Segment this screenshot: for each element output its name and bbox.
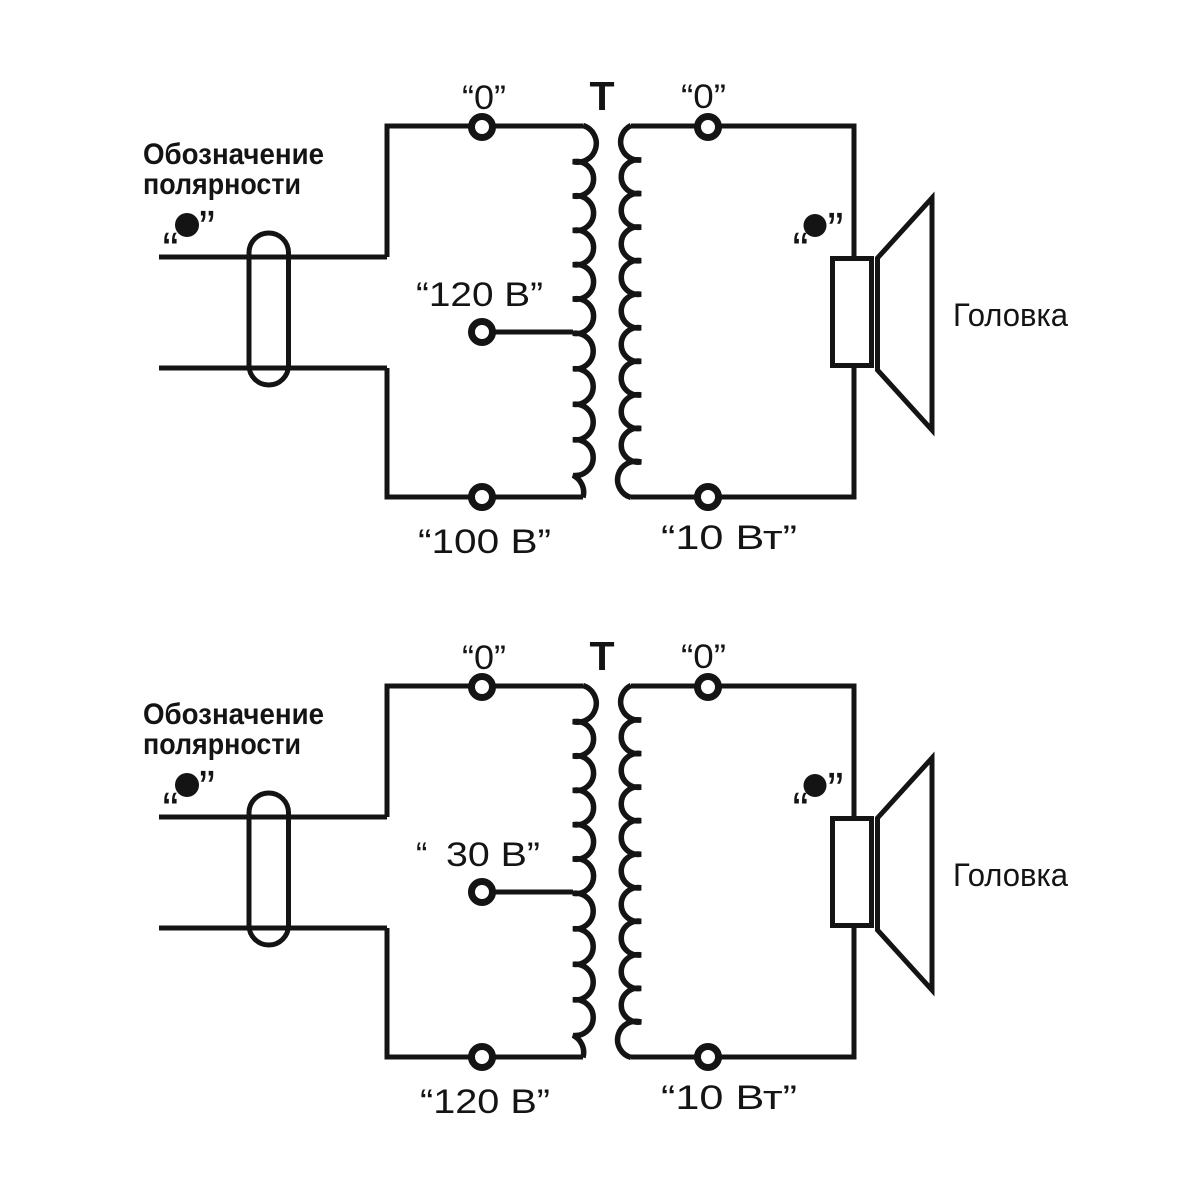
- svg-text:Головка: Головка: [953, 857, 1068, 893]
- cable jacket (polarity capsule): [249, 793, 289, 945]
- loudspeaker horn: [878, 758, 933, 990]
- loudspeaker horn: [878, 198, 933, 430]
- svg-text:“: “: [793, 784, 809, 837]
- label: center tap voltage: [416, 276, 543, 314]
- wire: upper input lead: [159, 815, 387, 820]
- terminal bottom (primary): [472, 1047, 493, 1068]
- terminal "0" (secondary): [698, 117, 719, 138]
- label: center tap voltage: [416, 836, 540, 874]
- polarity dot marker (speaker): [793, 204, 844, 277]
- svg-text:“: “: [163, 224, 179, 277]
- svg-text:“100 В”: “100 В”: [418, 523, 551, 561]
- svg-text:Обозначение: Обозначение: [143, 138, 324, 171]
- wire: secondary top rail: [631, 126, 854, 256]
- svg-text:“0”: “0”: [681, 638, 726, 676]
- svg-text:“120 В”: “120 В”: [416, 276, 543, 314]
- polarity dot marker (input): [163, 202, 215, 277]
- wire: primary center tap: [487, 890, 573, 895]
- loudspeaker driver (magnet rect): [833, 259, 872, 366]
- wire: upper input lead: [159, 255, 387, 260]
- label: Обозначение полярности: [143, 138, 324, 201]
- polarity dot marker (input): [163, 762, 215, 837]
- wire: lower input lead: [159, 926, 387, 931]
- svg-text:Головка: Головка: [953, 297, 1068, 333]
- wire: secondary top rail: [631, 686, 854, 816]
- terminal "0" (primary): [472, 117, 493, 138]
- svg-text:T: T: [589, 633, 614, 679]
- wire: lower input lead: [159, 366, 387, 371]
- terminal "10 Вт" (secondary): [698, 487, 719, 508]
- svg-text:”: ”: [199, 762, 215, 815]
- svg-text:полярности: полярности: [143, 168, 301, 201]
- svg-text:30 В”: 30 В”: [446, 836, 540, 874]
- wire: primary bottom rail: [387, 368, 583, 497]
- transformer T primary winding: [573, 126, 596, 498]
- wire: secondary bottom rail: [631, 928, 854, 1057]
- terminal "0" (secondary): [698, 677, 719, 698]
- polarity dot marker (speaker): [793, 764, 844, 837]
- svg-text:“0”: “0”: [462, 79, 506, 117]
- svg-text:полярности: полярности: [143, 728, 301, 761]
- svg-text:”: ”: [828, 764, 844, 817]
- wire: primary center tap: [487, 330, 573, 335]
- terminal "0" (primary): [472, 677, 493, 698]
- svg-text:“0”: “0”: [681, 78, 726, 116]
- wire: primary top rail: [387, 126, 583, 257]
- svg-text:“120 В”: “120 В”: [420, 1083, 550, 1121]
- wire: primary top rail: [387, 686, 583, 817]
- transformer T secondary winding: [618, 126, 641, 498]
- wire: secondary bottom rail: [631, 368, 854, 497]
- terminal bottom (primary): [472, 487, 493, 508]
- cable jacket (polarity capsule): [249, 233, 289, 385]
- svg-text:“: “: [163, 784, 179, 837]
- svg-text:“: “: [416, 836, 427, 874]
- svg-text:”: ”: [199, 202, 215, 255]
- wire: primary bottom rail: [387, 928, 583, 1057]
- terminal center tap (primary): [472, 882, 493, 903]
- svg-text:“10 Вт”: “10 Вт”: [661, 519, 797, 557]
- svg-text:“10 Вт”: “10 Вт”: [661, 1079, 797, 1117]
- svg-text:“0”: “0”: [462, 639, 506, 677]
- svg-text:“: “: [793, 224, 809, 277]
- terminal center tap (primary): [472, 322, 493, 343]
- transformer T primary winding: [573, 686, 596, 1058]
- transformer T secondary winding: [618, 686, 641, 1058]
- svg-text:Обозначение: Обозначение: [143, 698, 324, 731]
- loudspeaker driver (magnet rect): [833, 819, 872, 926]
- svg-text:”: ”: [828, 204, 844, 257]
- terminal "10 Вт" (secondary): [698, 1047, 719, 1068]
- svg-text:T: T: [589, 73, 614, 119]
- label: Обозначение полярности: [143, 698, 324, 761]
